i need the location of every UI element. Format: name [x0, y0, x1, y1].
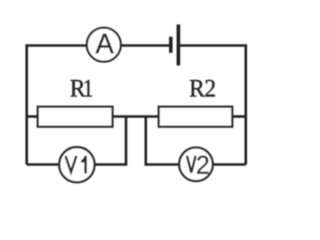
ammeter A letter glyph: [96, 34, 114, 53]
voltmeter V1 circle: [59, 147, 94, 182]
wire: V2 left riser from junction node B between R1 and R2: [146, 117, 179, 165]
resistor R1 label glyph 1: [85, 80, 92, 97]
wire: V2 right lead to right vertical: [214, 163, 246, 166]
resistor R1 label glyph R: [70, 80, 85, 97]
wire: middle link between R1 and R2: [113, 115, 159, 118]
resistor R2 label glyph 2: [205, 80, 214, 97]
resistor R1 body: [38, 107, 113, 127]
voltmeter V2 circle: [179, 148, 213, 182]
wire: battery to top-right corner, right vertical: [180, 46, 246, 165]
wire: left vertical and top-left segment to ammeter: [27, 46, 87, 165]
voltmeter V1 letter V: [66, 156, 77, 172]
wire: V1 left lead along bottom: [27, 163, 59, 166]
battery BT1 long plate (positive): [177, 25, 181, 66]
wire: V1 right lead and riser to junction node A between R1 and R2: [95, 117, 126, 165]
ammeter A circle: [87, 28, 121, 62]
wire: R2 right lead: [232, 115, 246, 118]
resistor R2 label glyph R: [190, 80, 205, 97]
wire: R1 left lead: [27, 115, 38, 118]
resistor R2 body: [159, 107, 233, 127]
voltmeter V2 digit 2: [197, 156, 208, 174]
battery BT1 short plate (negative): [169, 37, 173, 53]
voltmeter V1 digit 1: [81, 156, 87, 174]
wire: ammeter to battery: [121, 44, 169, 47]
voltmeter V2 letter V: [187, 156, 196, 173]
